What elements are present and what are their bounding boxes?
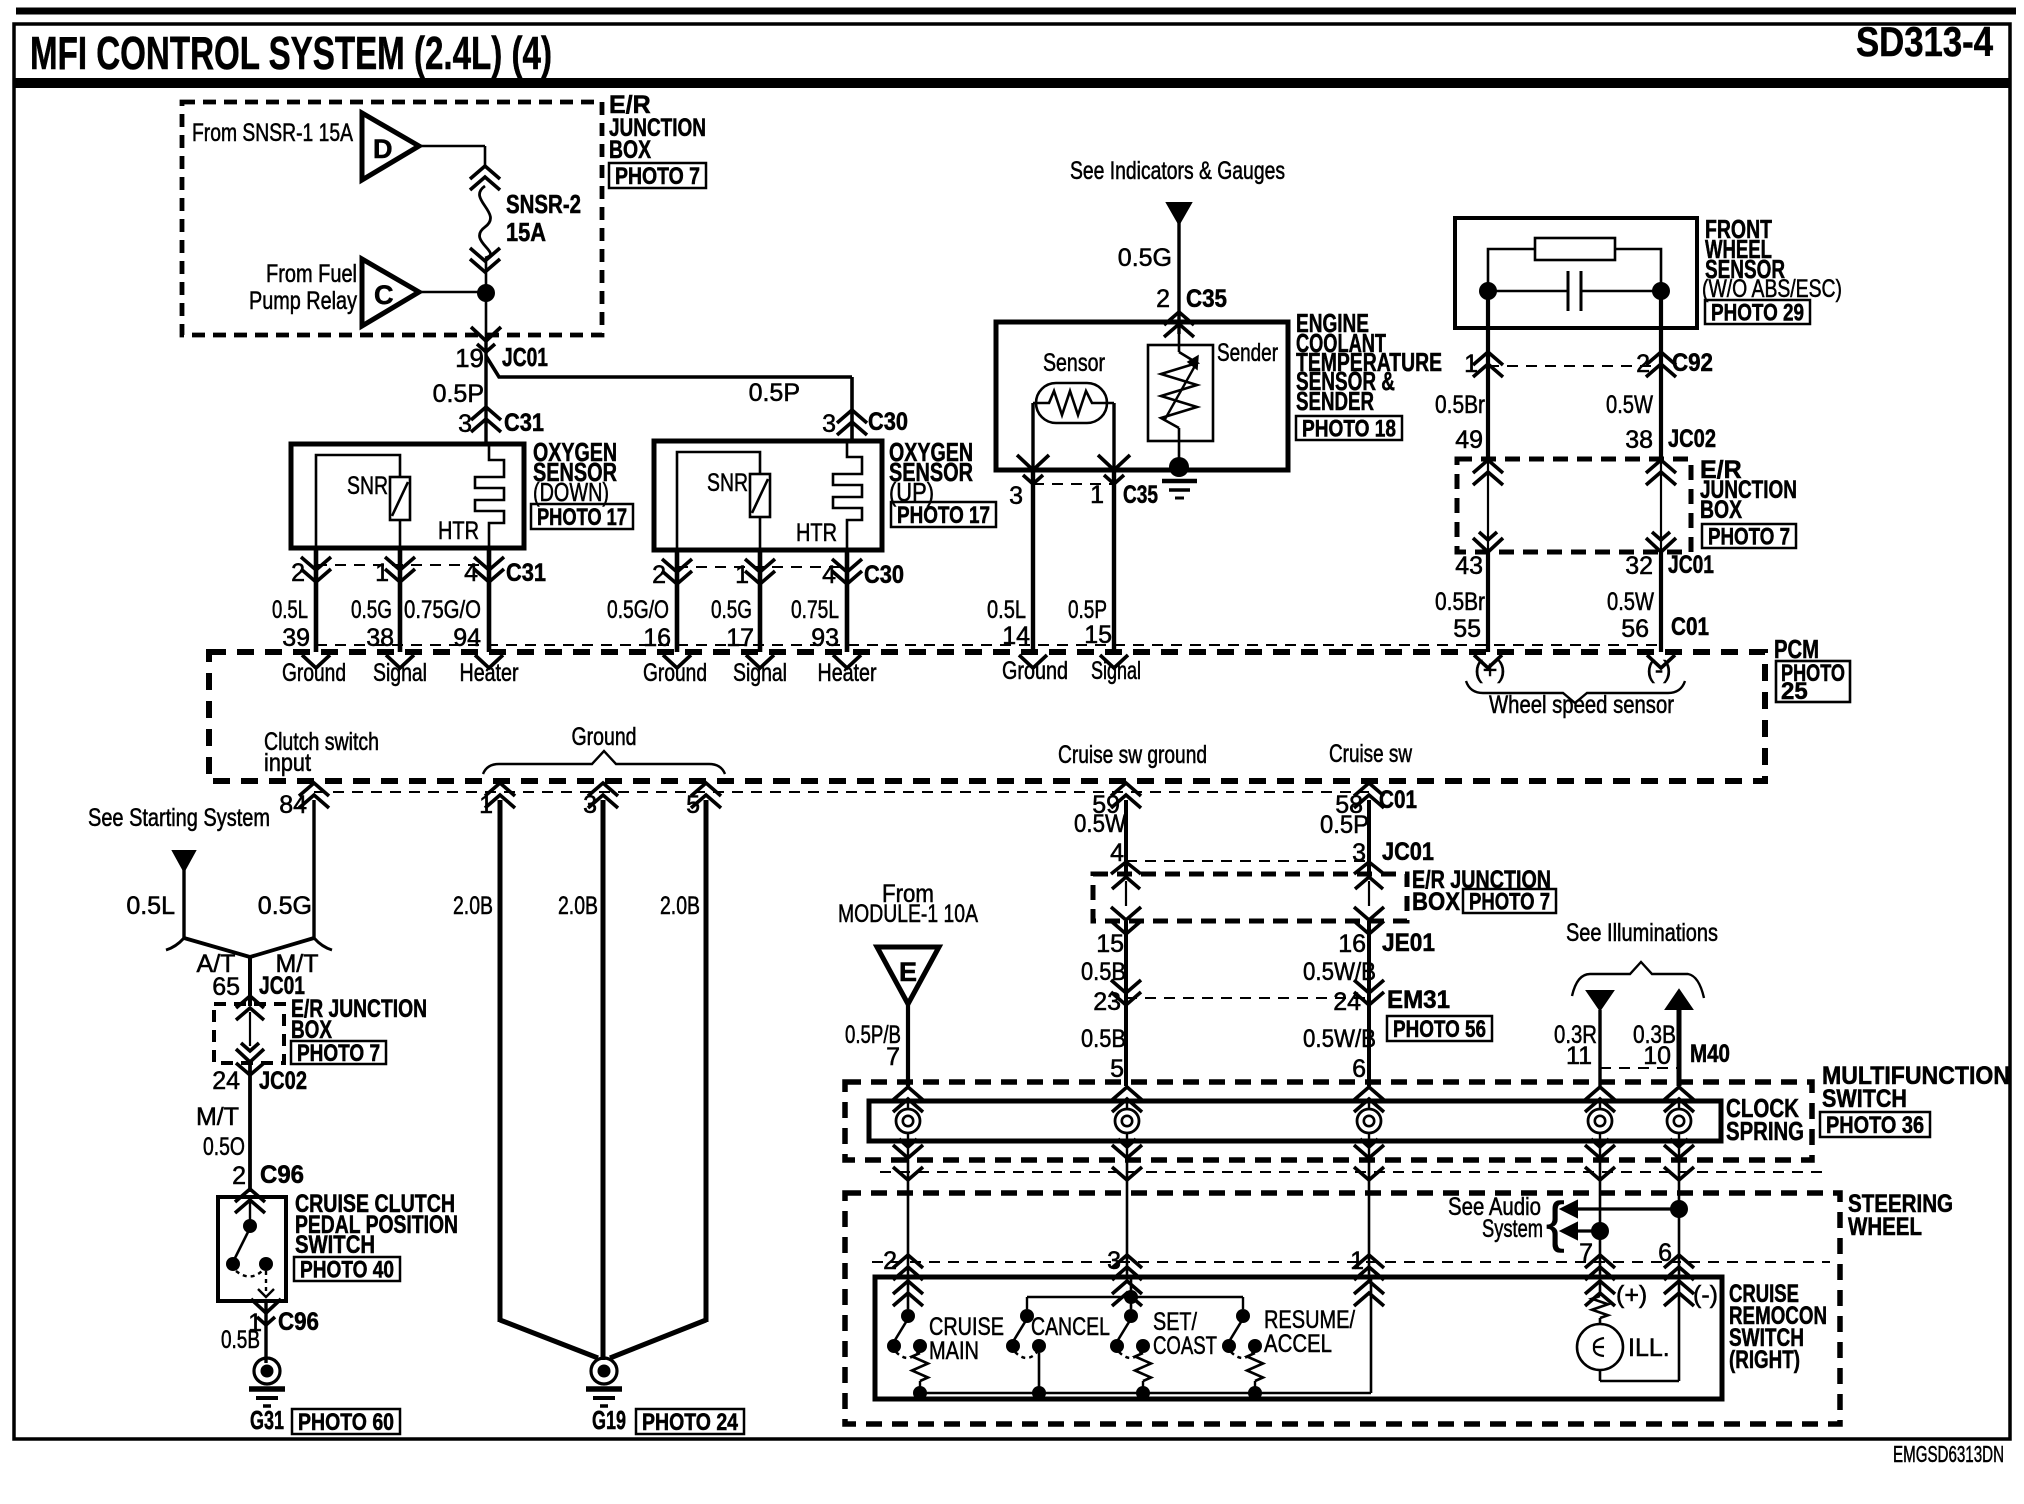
svg-text:PHOTO 36: PHOTO 36 (1826, 1112, 1924, 1139)
svg-text:JC02: JC02 (259, 1067, 307, 1095)
svg-text:0.5O: 0.5O (203, 1133, 245, 1161)
svg-text:System: System (1482, 1215, 1543, 1243)
svg-text:Pump Relay: Pump Relay (249, 287, 357, 315)
svg-text:Signal: Signal (733, 659, 787, 687)
svg-text:11: 11 (1566, 1042, 1592, 1070)
svg-text:PHOTO 18: PHOTO 18 (1302, 416, 1396, 443)
svg-text:0.5G: 0.5G (1118, 244, 1172, 272)
svg-text:{: { (1546, 1190, 1565, 1253)
svg-text:SNR: SNR (347, 472, 388, 500)
svg-text:16: 16 (643, 624, 671, 652)
svg-text:PHOTO 56: PHOTO 56 (1393, 1016, 1486, 1043)
svg-text:Heater: Heater (818, 659, 877, 687)
svg-text:ACCEL: ACCEL (1264, 1330, 1332, 1358)
svg-text:BOX: BOX (609, 136, 651, 164)
svg-text:16: 16 (1338, 930, 1366, 958)
svg-text:SNSR-2: SNSR-2 (506, 189, 581, 219)
svg-text:Cruise sw: Cruise sw (1329, 740, 1413, 768)
svg-text:C31: C31 (506, 559, 546, 587)
svg-text:0.5P: 0.5P (749, 379, 800, 407)
svg-text:MAIN: MAIN (929, 1337, 979, 1365)
svg-text:0.5P: 0.5P (1320, 811, 1369, 839)
svg-text:7: 7 (886, 1043, 900, 1071)
svg-text:2: 2 (883, 1247, 897, 1275)
svg-text:Sender: Sender (1217, 339, 1278, 367)
svg-text:C01: C01 (1671, 613, 1709, 641)
svg-text:COAST: COAST (1153, 1332, 1217, 1360)
svg-text:(-): (-) (1647, 656, 1672, 684)
svg-text:See Starting System: See Starting System (88, 804, 270, 832)
svg-text:3: 3 (1009, 482, 1023, 510)
svg-text:93: 93 (811, 624, 839, 652)
svg-text:C35: C35 (1123, 481, 1158, 509)
svg-text:CANCEL: CANCEL (1031, 1313, 1110, 1341)
svg-text:C31: C31 (504, 409, 544, 437)
svg-text:0.75G/O: 0.75G/O (404, 596, 481, 624)
svg-text:JC02: JC02 (1668, 425, 1716, 453)
svg-text:0.5W/B: 0.5W/B (1303, 958, 1376, 986)
svg-text:JC01: JC01 (1382, 838, 1434, 866)
svg-text:0.5W: 0.5W (1606, 391, 1653, 419)
svg-text:See Indicators & Gauges: See Indicators & Gauges (1070, 157, 1285, 185)
svg-text:PHOTO 24: PHOTO 24 (642, 1409, 739, 1436)
svg-text:JE01: JE01 (1382, 929, 1435, 957)
svg-text:Signal: Signal (373, 659, 427, 687)
svg-text:JC01: JC01 (502, 342, 548, 372)
svg-text:84: 84 (279, 791, 307, 819)
svg-text:SNR: SNR (707, 469, 748, 497)
svg-text:C96: C96 (278, 1308, 319, 1336)
svg-text:4: 4 (1110, 839, 1124, 867)
svg-text:C01: C01 (1379, 786, 1417, 814)
svg-text:23: 23 (1093, 988, 1121, 1016)
svg-text:PHOTO 7: PHOTO 7 (1469, 889, 1550, 916)
svg-text:55: 55 (1453, 615, 1481, 643)
svg-text:G19: G19 (592, 1405, 626, 1435)
svg-text:0.5G/O: 0.5G/O (607, 596, 669, 624)
svg-text:ILL.: ILL. (1628, 1334, 1670, 1362)
svg-text:Wheel speed sensor: Wheel speed sensor (1489, 691, 1674, 719)
svg-text:39: 39 (282, 624, 310, 652)
svg-text:M/T: M/T (196, 1103, 239, 1131)
svg-text:2: 2 (652, 561, 666, 589)
svg-text:M40: M40 (1690, 1040, 1730, 1068)
svg-text:4: 4 (464, 559, 478, 587)
svg-text:PHOTO 7: PHOTO 7 (297, 1040, 380, 1067)
svg-text:0.5L: 0.5L (272, 596, 308, 624)
svg-text:0.5L: 0.5L (126, 892, 175, 920)
svg-text:17: 17 (726, 624, 754, 652)
svg-text:C92: C92 (1672, 349, 1713, 377)
svg-text:1: 1 (375, 559, 389, 587)
svg-text:3: 3 (1352, 839, 1366, 867)
svg-text:WHEEL: WHEEL (1848, 1213, 1922, 1241)
svg-text:EM31: EM31 (1387, 986, 1450, 1014)
svg-text:94: 94 (453, 624, 481, 652)
svg-text:See Illuminations: See Illuminations (1566, 919, 1718, 947)
svg-text:49: 49 (1455, 426, 1483, 454)
svg-text:(+): (+) (1474, 656, 1505, 684)
svg-text:From Fuel: From Fuel (266, 260, 357, 288)
svg-text:From SNSR-1 15A: From SNSR-1 15A (192, 119, 353, 147)
svg-text:C30: C30 (868, 408, 908, 436)
svg-text:C: C (374, 280, 394, 310)
svg-text:10: 10 (1643, 1042, 1671, 1070)
svg-text:2.0B: 2.0B (453, 892, 493, 920)
svg-text:SWITCH: SWITCH (295, 1231, 375, 1259)
svg-text:2: 2 (1636, 350, 1650, 378)
svg-text:0.5P: 0.5P (1068, 596, 1107, 624)
svg-text:MFI CONTROL SYSTEM (2.4L) (4): MFI CONTROL SYSTEM (2.4L) (4) (30, 27, 552, 79)
svg-text:MODULE-1 10A: MODULE-1 10A (838, 900, 978, 928)
svg-text:0.5Br: 0.5Br (1435, 391, 1485, 419)
svg-text:(-): (-) (1693, 1281, 1718, 1309)
svg-text:2: 2 (1156, 285, 1170, 313)
svg-text:SD313-4: SD313-4 (1856, 18, 1994, 65)
svg-text:PHOTO 60: PHOTO 60 (298, 1409, 394, 1436)
svg-text:PHOTO 40: PHOTO 40 (300, 1257, 394, 1284)
svg-text:PHOTO 17: PHOTO 17 (897, 502, 990, 529)
svg-text:E: E (899, 957, 917, 987)
svg-text:3: 3 (458, 410, 472, 438)
svg-text:HTR: HTR (796, 519, 837, 547)
svg-text:25: 25 (1781, 678, 1808, 705)
svg-text:0.5P: 0.5P (433, 380, 484, 408)
svg-text:G31: G31 (250, 1405, 284, 1435)
svg-text:SENDER: SENDER (1296, 386, 1374, 416)
svg-text:2: 2 (291, 559, 305, 587)
svg-text:19: 19 (455, 343, 484, 373)
svg-text:JC01: JC01 (1668, 551, 1714, 579)
svg-text:2.0B: 2.0B (558, 892, 598, 920)
svg-text:SPRING: SPRING (1726, 1116, 1804, 1146)
svg-text:0.75L: 0.75L (791, 596, 839, 624)
svg-text:Ground: Ground (643, 659, 707, 687)
svg-text:0.5B: 0.5B (221, 1326, 260, 1354)
svg-text:65: 65 (212, 973, 240, 1001)
svg-text:5: 5 (1110, 1055, 1124, 1083)
svg-text:EMGSD6313DN: EMGSD6313DN (1893, 1441, 2004, 1467)
svg-text:56: 56 (1621, 615, 1649, 643)
svg-text:4: 4 (822, 561, 836, 589)
svg-text:24: 24 (212, 1067, 240, 1095)
svg-text:15A: 15A (506, 217, 546, 247)
svg-text:(+): (+) (1616, 1281, 1647, 1309)
svg-text:32: 32 (1625, 552, 1653, 580)
svg-text:0.5B: 0.5B (1081, 1025, 1126, 1053)
svg-text:2.0B: 2.0B (660, 892, 700, 920)
svg-text:1: 1 (1464, 350, 1478, 378)
svg-text:Ground: Ground (572, 723, 637, 751)
svg-text:SWITCH: SWITCH (1822, 1085, 1907, 1113)
svg-text:0.5L: 0.5L (987, 596, 1026, 624)
svg-text:D: D (373, 134, 393, 164)
svg-text:PHOTO 7: PHOTO 7 (615, 163, 700, 190)
svg-text:Signal: Signal (1091, 657, 1141, 685)
svg-text:5: 5 (686, 791, 700, 819)
svg-text:0.5G: 0.5G (351, 596, 392, 624)
svg-text:(DOWN): (DOWN) (533, 477, 609, 507)
svg-text:C35: C35 (1186, 285, 1227, 313)
svg-text:PHOTO 7: PHOTO 7 (1708, 524, 1790, 551)
svg-text:0.5B: 0.5B (1081, 958, 1126, 986)
svg-text:3: 3 (583, 791, 597, 819)
svg-text:BOX: BOX (1412, 888, 1460, 916)
svg-text:3: 3 (822, 410, 836, 438)
svg-text:38: 38 (366, 624, 394, 652)
svg-text:Cruise sw ground: Cruise sw ground (1058, 741, 1207, 769)
svg-text:2: 2 (232, 1162, 246, 1190)
svg-text:input: input (264, 749, 311, 777)
svg-text:Ground: Ground (282, 659, 346, 687)
svg-text:Ground: Ground (1002, 657, 1068, 685)
svg-text:PHOTO 29: PHOTO 29 (1711, 300, 1804, 327)
svg-text:0.5G: 0.5G (711, 596, 752, 624)
svg-text:43: 43 (1455, 552, 1483, 580)
svg-text:Heater: Heater (460, 659, 519, 687)
svg-text:0.5W/B: 0.5W/B (1303, 1025, 1376, 1053)
svg-text:0.5W: 0.5W (1074, 810, 1126, 838)
svg-text:C96: C96 (260, 1161, 304, 1189)
svg-text:1: 1 (479, 791, 493, 819)
svg-text:HTR: HTR (438, 517, 479, 545)
svg-text:BOX: BOX (1700, 496, 1742, 524)
svg-text:Sensor: Sensor (1043, 349, 1105, 377)
svg-text:6: 6 (1352, 1055, 1366, 1083)
svg-text:PHOTO 17: PHOTO 17 (537, 504, 627, 531)
svg-text:1: 1 (735, 561, 749, 589)
svg-text:1: 1 (1090, 481, 1104, 509)
svg-text:38: 38 (1625, 426, 1653, 454)
svg-text:C30: C30 (864, 561, 904, 589)
svg-text:15: 15 (1096, 930, 1124, 958)
svg-text:0.5W: 0.5W (1607, 588, 1654, 616)
svg-text:0.5Br: 0.5Br (1435, 588, 1485, 616)
svg-text:0.5G: 0.5G (258, 892, 312, 920)
svg-text:(RIGHT): (RIGHT) (1729, 1346, 1800, 1374)
